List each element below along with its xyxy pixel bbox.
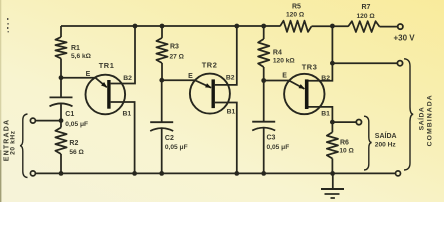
- svg-text:R2: R2: [69, 140, 78, 147]
- terminal ENTRADA upper: [30, 118, 35, 123]
- transistor TR3: [284, 63, 324, 115]
- wire R1 top connection: [60, 26, 62, 37]
- wire C3 bottom to rail: [263, 128, 265, 173]
- wire C1 bottom to input node: [60, 104, 62, 120]
- node R4/rail junction: [261, 24, 266, 29]
- svg-text:B2: B2: [123, 75, 132, 82]
- wire R3 bottom to node E2: [161, 63, 163, 80]
- node SAIDA COMBINADA label: [417, 94, 434, 146]
- svg-text:R5: R5: [292, 4, 301, 11]
- node TR1-B2/rail junction: [133, 24, 138, 29]
- node E2 junction: [159, 78, 164, 83]
- wire R3 top connection: [161, 26, 163, 38]
- wire input to terminal: [35, 120, 61, 122]
- wire top supply rail left segment: [61, 25, 280, 27]
- wire C2 top connection: [161, 80, 163, 122]
- resistor R6: [327, 132, 355, 158]
- node C2/bottom rail junction: [159, 171, 164, 176]
- svg-text:56 Ω: 56 Ω: [69, 149, 84, 156]
- wire R6 bottom to rail: [331, 159, 333, 174]
- terminal SAIDA COMBINADA lower: [396, 171, 401, 176]
- svg-text:COMBINADA: COMBINADA: [426, 94, 433, 146]
- svg-text:10 Ω: 10 Ω: [339, 147, 354, 154]
- terminal +30V: [394, 24, 416, 43]
- node E3 junction: [261, 78, 266, 83]
- wire C1 top connection: [60, 78, 62, 97]
- svg-text:120 Ω: 120 Ω: [286, 12, 305, 19]
- svg-text:120 Ω: 120 Ω: [357, 13, 376, 20]
- node combined-output junction: [330, 61, 335, 66]
- wire from R7 to +30V terminal: [380, 26, 398, 28]
- svg-text:TR1: TR1: [99, 61, 115, 70]
- svg-text:SAÍDA: SAÍDA: [417, 107, 426, 131]
- ENTRADA brace: [20, 114, 28, 178]
- wire TR1 emitter: [61, 78, 107, 88]
- svg-text:0,05 μF: 0,05 μF: [165, 144, 188, 151]
- node TR2-B1/bottom rail junction: [234, 171, 239, 176]
- SAIDA COMBINADA brace: [404, 59, 413, 170]
- svg-text:R4: R4: [273, 49, 282, 56]
- svg-text:TR3: TR3: [302, 63, 318, 72]
- wire R2 bottom to rail: [60, 154, 62, 173]
- svg-text:C1: C1: [65, 111, 74, 118]
- svg-text:0,05 μF: 0,05 μF: [65, 121, 88, 128]
- svg-text:C2: C2: [165, 135, 174, 142]
- svg-text:B1: B1: [123, 110, 132, 117]
- resistor R7: [348, 4, 380, 32]
- svg-text:B2: B2: [226, 75, 235, 82]
- wire TR2 base1 to bottom rail: [215, 103, 237, 174]
- svg-text:R1: R1: [71, 45, 80, 52]
- node input junction: [59, 118, 64, 123]
- node SAIDA 200Hz label: [375, 131, 397, 148]
- svg-text:E: E: [188, 73, 193, 80]
- node R2/bottom rail junction: [59, 171, 64, 176]
- node C3/bottom rail junction: [261, 171, 266, 176]
- svg-text:E: E: [86, 71, 91, 78]
- wire bottom ground rail: [35, 172, 395, 174]
- wire TR3 base1 down: [309, 107, 333, 122]
- node E1 junction: [59, 75, 64, 80]
- scan specks: [7, 18, 9, 32]
- transistor TR2: [190, 60, 230, 113]
- terminal SAIDA COMBINADA upper: [397, 61, 402, 66]
- wire output tap: [332, 121, 356, 123]
- wire C2 bottom to rail: [161, 129, 163, 174]
- wire TR1 base1 to bottom rail: [111, 102, 135, 173]
- node ENTRADA label: [4, 119, 17, 162]
- transistor TR1: [86, 61, 126, 114]
- svg-text:B1: B1: [227, 108, 236, 115]
- wire C3 top connection: [263, 81, 265, 122]
- svg-text:R3: R3: [170, 44, 179, 51]
- terminal SAIDA 200Hz: [356, 120, 361, 125]
- svg-text:B1: B1: [321, 110, 330, 117]
- wire R6 top connection: [331, 122, 333, 132]
- ground: [321, 173, 344, 198]
- resistor R2: [55, 128, 84, 157]
- SAIDA brace: [364, 116, 372, 170]
- wire TR3 base2 to R5-R7 node: [309, 26, 333, 81]
- capacitor C3: [252, 122, 289, 151]
- svg-text:120 kΩ: 120 kΩ: [273, 58, 296, 65]
- wire R4 bottom to node E3: [263, 67, 265, 81]
- svg-text:20 kHz: 20 kHz: [10, 130, 17, 155]
- capacitor C1: [50, 97, 89, 127]
- resistor R5: [280, 4, 312, 32]
- svg-text:27 Ω: 27 Ω: [170, 54, 185, 61]
- wire TR2 emitter: [162, 80, 211, 88]
- wire TR3 emitter: [264, 81, 305, 89]
- svg-text:E: E: [282, 72, 287, 79]
- resistor R1: [55, 37, 91, 60]
- svg-text:TR2: TR2: [202, 60, 218, 69]
- wire TR1 base2 to rail: [111, 26, 135, 84]
- svg-text:200 Hz: 200 Hz: [375, 141, 397, 148]
- wire R4 top connection: [263, 26, 265, 39]
- svg-text:5,6 kΩ: 5,6 kΩ: [71, 53, 92, 60]
- wire top rail between R5 and R7: [312, 25, 349, 27]
- node TR2-B2/rail junction: [234, 24, 239, 29]
- svg-text:+30 V: +30 V: [394, 34, 416, 43]
- node R3/rail junction: [160, 24, 165, 29]
- wire R2 top connection: [60, 121, 62, 128]
- terminal ENTRADA lower: [30, 171, 35, 176]
- resistor R3: [156, 38, 184, 63]
- svg-text:R6: R6: [340, 139, 349, 146]
- node TR1-B1/bottom rail junction: [132, 171, 137, 176]
- wire combined output tap: [332, 62, 397, 64]
- node R5-R7 junction: [330, 24, 335, 29]
- wire R1 bottom to node E1: [60, 59, 62, 78]
- svg-text:SAÍDA: SAÍDA: [375, 131, 397, 140]
- node ground junction: [330, 171, 335, 176]
- wire TR2 base2 to rail: [215, 26, 237, 85]
- svg-text:R7: R7: [362, 4, 371, 11]
- capacitor C2: [150, 122, 187, 151]
- svg-text:0,05 μF: 0,05 μF: [267, 144, 290, 151]
- resistor R4: [258, 39, 295, 67]
- scan edge shading: [0, 0, 1, 202]
- node output junction: [330, 120, 335, 125]
- svg-text:C3: C3: [267, 134, 276, 141]
